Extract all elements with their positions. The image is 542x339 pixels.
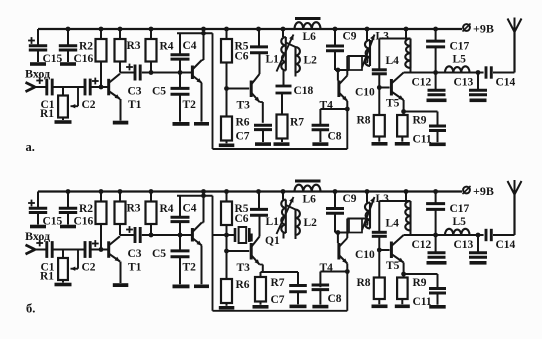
svg-text:L6: L6: [303, 31, 317, 43]
svg-text:R8: R8: [357, 277, 371, 289]
svg-text:C4: C4: [183, 40, 197, 52]
svg-text:T3: T3: [237, 262, 251, 274]
svg-text:б.: б.: [26, 302, 35, 316]
svg-text:R8: R8: [357, 115, 371, 127]
svg-text:T3: T3: [237, 100, 251, 112]
svg-text:C10: C10: [355, 249, 375, 261]
svg-text:C10: C10: [355, 87, 375, 99]
svg-text:T5: T5: [386, 260, 400, 272]
svg-text:C17: C17: [450, 203, 470, 215]
svg-text:C6: C6: [235, 213, 249, 225]
svg-text:C13: C13: [454, 239, 474, 251]
svg-text:C15: C15: [43, 53, 63, 65]
svg-text:T2: T2: [183, 99, 197, 111]
svg-text:C6: C6: [235, 51, 249, 63]
svg-text:R9: R9: [413, 277, 427, 289]
svg-text:R7: R7: [271, 277, 285, 289]
svg-text:C8: C8: [328, 131, 342, 143]
svg-text:L4: L4: [386, 55, 400, 67]
svg-text:R9: R9: [413, 115, 427, 127]
svg-text:C15: C15: [43, 216, 63, 228]
svg-text:R7: R7: [290, 117, 304, 129]
svg-text:R6: R6: [236, 279, 250, 291]
svg-text:R1: R1: [40, 271, 54, 283]
svg-text:R6: R6: [236, 117, 250, 129]
svg-text:T5: T5: [386, 98, 400, 110]
svg-text:Вход: Вход: [25, 67, 50, 81]
svg-text:R3: R3: [127, 203, 141, 215]
svg-text:T1: T1: [128, 262, 142, 274]
svg-text:L2: L2: [304, 217, 318, 229]
svg-text:R4: R4: [160, 203, 174, 215]
svg-text:C12: C12: [412, 239, 432, 251]
svg-text:L4: L4: [386, 218, 400, 230]
svg-text:C3: C3: [128, 86, 142, 98]
svg-text:C16: C16: [74, 53, 94, 65]
svg-text:C2: C2: [82, 99, 96, 111]
svg-text:T2: T2: [183, 262, 197, 274]
svg-text:Q1: Q1: [265, 235, 280, 247]
svg-text:Вход: Вход: [25, 229, 50, 243]
svg-text:T1: T1: [128, 99, 142, 111]
svg-text:C12: C12: [412, 77, 432, 89]
svg-text:C14: C14: [496, 239, 516, 251]
svg-text:C4: C4: [183, 203, 197, 215]
svg-text:C5: C5: [152, 86, 166, 98]
svg-text:L5: L5: [453, 54, 467, 66]
svg-text:C13: C13: [454, 77, 474, 89]
svg-text:C17: C17: [450, 41, 470, 53]
svg-text:L1: L1: [266, 54, 280, 66]
svg-text:R1: R1: [40, 108, 54, 120]
svg-text:R3: R3: [127, 40, 141, 52]
svg-text:L5: L5: [453, 216, 467, 228]
svg-text:C5: C5: [152, 248, 166, 260]
svg-text:R4: R4: [160, 41, 174, 53]
svg-text:L3: L3: [376, 31, 390, 43]
svg-text:C11: C11: [413, 296, 432, 308]
svg-text:R2: R2: [79, 41, 93, 53]
svg-text:L1: L1: [266, 216, 280, 228]
svg-text:C8: C8: [328, 293, 342, 305]
svg-text:C16: C16: [74, 216, 94, 228]
svg-text:C14: C14: [496, 77, 516, 89]
svg-text:C3: C3: [128, 248, 142, 260]
svg-text:C7: C7: [271, 294, 285, 306]
svg-text:C7: C7: [236, 131, 250, 143]
svg-text:L3: L3: [376, 193, 390, 205]
svg-text:+9В: +9В: [473, 184, 494, 198]
svg-text:R2: R2: [79, 203, 93, 215]
svg-text:C9: C9: [343, 31, 357, 43]
svg-text:C18: C18: [294, 85, 314, 97]
svg-text:C9: C9: [343, 193, 357, 205]
svg-text:C2: C2: [82, 262, 96, 274]
svg-text:C11: C11: [413, 134, 432, 146]
svg-text:L6: L6: [303, 194, 317, 206]
svg-text:+9В: +9В: [473, 22, 494, 36]
svg-text:а.: а.: [26, 140, 35, 154]
svg-text:L2: L2: [304, 55, 318, 67]
